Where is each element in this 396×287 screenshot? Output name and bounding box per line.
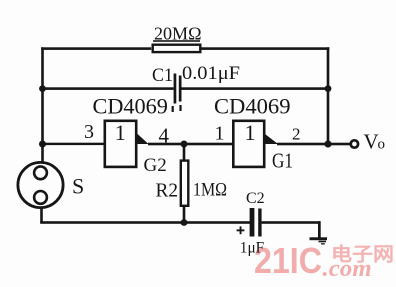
node junction left-pin3 bbox=[39, 141, 46, 148]
node junction G2out-R2 bbox=[181, 141, 188, 148]
svg-text:V: V bbox=[364, 129, 379, 153]
watermark 电子网 bbox=[331, 243, 394, 266]
svg-text:C1: C1 bbox=[152, 65, 173, 86]
wire C1 row right segment bbox=[181, 87, 328, 90]
svg-text:1: 1 bbox=[215, 123, 225, 145]
resistor 20MΩ bbox=[153, 24, 202, 53]
sensor S bbox=[18, 162, 63, 207]
label Vo bbox=[364, 129, 386, 153]
label G1 bbox=[272, 149, 293, 173]
svg-text:0.01μF: 0.01μF bbox=[182, 63, 240, 84]
svg-text:G2: G2 bbox=[144, 155, 167, 176]
wire S bottom vertical bbox=[40, 208, 43, 223]
svg-text:20MΩ: 20MΩ bbox=[154, 24, 202, 44]
capacitor C2 polarized bbox=[237, 190, 265, 237]
op-amp inverter G1 bbox=[233, 120, 278, 167]
wire pin3 segment bbox=[42, 143, 104, 145]
wire bottom horizontal right segment bbox=[262, 221, 321, 224]
svg-text:4: 4 bbox=[159, 124, 170, 148]
svg-text:3: 3 bbox=[84, 121, 94, 143]
node junction left-C1 bbox=[39, 85, 46, 92]
node junction R2 bottom bbox=[181, 219, 188, 226]
label CD4069 (G1) bbox=[214, 94, 291, 119]
op-amp inverter G2 bbox=[105, 120, 149, 167]
svg-text:1μF: 1μF bbox=[240, 240, 264, 257]
wire bottom horizontal left segment bbox=[40, 221, 250, 224]
svg-text:1: 1 bbox=[245, 120, 256, 145]
svg-text:1MΩ: 1MΩ bbox=[193, 180, 227, 201]
wire G2out to G1in bbox=[148, 143, 233, 146]
svg-text:o: o bbox=[378, 136, 386, 152]
wire C1 row left segment bbox=[41, 87, 174, 90]
ground bbox=[310, 237, 328, 244]
wire G1out to Vo bbox=[277, 143, 350, 146]
wire right vertical bbox=[327, 47, 330, 145]
svg-text:CD4069: CD4069 bbox=[214, 94, 291, 119]
terminal Vo circle bbox=[351, 140, 358, 147]
svg-text:S: S bbox=[72, 174, 84, 199]
watermark .com bbox=[323, 256, 372, 282]
resistor R2 1MΩ bbox=[156, 144, 228, 223]
svg-text:电子网: 电子网 bbox=[331, 243, 394, 266]
label CD4069 (G2) bbox=[93, 94, 168, 119]
svg-text:CD4069: CD4069 bbox=[93, 94, 168, 119]
svg-text:C2: C2 bbox=[246, 190, 265, 207]
wire ground drop vertical bbox=[318, 221, 321, 238]
watermark 21IC bbox=[254, 240, 322, 281]
svg-text:R2: R2 bbox=[156, 180, 179, 202]
pin number 1 bbox=[215, 123, 225, 145]
pin number 2 bbox=[292, 125, 301, 144]
wire top horizontal right segment bbox=[201, 47, 329, 50]
svg-text:2: 2 bbox=[292, 125, 301, 144]
pin number 4 bbox=[159, 124, 170, 148]
label S bbox=[72, 174, 84, 199]
wire left vertical bbox=[41, 47, 44, 162]
label 1μF (C2 value) bbox=[240, 240, 264, 257]
svg-text:G1: G1 bbox=[272, 149, 293, 173]
capacitor C1 0.01μF bbox=[152, 63, 240, 112]
node junction right-Vo bbox=[324, 140, 331, 147]
node junction right-C1 bbox=[325, 85, 332, 92]
label G2 bbox=[144, 155, 167, 176]
svg-text:1: 1 bbox=[115, 120, 126, 145]
pin number 3 bbox=[84, 121, 94, 143]
wire top horizontal left segment bbox=[41, 47, 151, 50]
